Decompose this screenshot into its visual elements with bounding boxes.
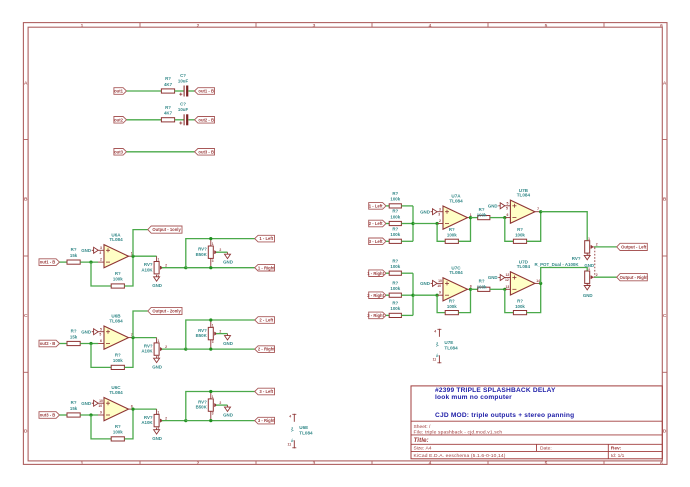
svg-text:3: 3 <box>212 259 214 263</box>
svg-text:R?: R? <box>115 424 121 429</box>
svg-text:R_POT_Dual - A100K: R_POT_Dual - A100K <box>535 262 580 267</box>
svg-text:#2399 TRIPLE SPLASHBACK DELAY: #2399 TRIPLE SPLASHBACK DELAY <box>435 387 556 394</box>
svg-text:14: 14 <box>536 279 540 283</box>
svg-text:5: 5 <box>506 201 508 205</box>
svg-text:3 - Left: 3 - Left <box>369 239 383 244</box>
svg-text:out3: out3 <box>114 149 124 154</box>
svg-text:U6C: U6C <box>111 385 121 390</box>
svg-text:100k: 100k <box>477 284 487 289</box>
svg-text:GND: GND <box>152 283 162 288</box>
svg-text:C?: C? <box>180 73 186 78</box>
svg-text:C?: C? <box>180 102 186 107</box>
svg-text:GND: GND <box>152 365 162 370</box>
svg-text:2: 2 <box>165 345 167 349</box>
svg-text:File: triple spashback - cjd.m: File: triple spashback - cjd.mod.v1.sch <box>414 430 503 436</box>
svg-text:U6B: U6B <box>111 314 121 319</box>
svg-text:100k: 100k <box>390 264 400 269</box>
svg-text:V+: V+ <box>291 426 295 432</box>
svg-text:RV?: RV? <box>198 399 207 404</box>
svg-text:3: 3 <box>212 412 214 416</box>
svg-text:100k: 100k <box>390 306 400 311</box>
svg-text:3 - Right: 3 - Right <box>258 418 275 423</box>
svg-text:U7E: U7E <box>444 340 453 345</box>
svg-text:5: 5 <box>545 460 548 466</box>
svg-text:Title:: Title: <box>414 437 429 444</box>
svg-text:out2: out2 <box>114 117 124 122</box>
svg-text:100k: 100k <box>113 430 123 435</box>
svg-text:1 - Left: 1 - Left <box>259 236 273 241</box>
svg-text:1: 1 <box>158 411 160 415</box>
svg-text:4: 4 <box>429 460 432 466</box>
svg-text:2 - Left: 2 - Left <box>369 221 383 226</box>
svg-text:R?: R? <box>449 298 455 303</box>
svg-text:GND: GND <box>223 412 233 417</box>
svg-text:R?: R? <box>479 207 485 212</box>
svg-text:out1: out1 <box>114 89 124 94</box>
svg-text:GND: GND <box>81 248 91 253</box>
svg-text:TL084: TL084 <box>449 198 463 203</box>
svg-text:3: 3 <box>438 212 440 216</box>
svg-text:3: 3 <box>100 246 102 250</box>
svg-text:100k: 100k <box>113 277 123 282</box>
svg-text:1: 1 <box>212 324 214 328</box>
svg-text:C: C <box>24 313 28 319</box>
svg-text:100k: 100k <box>447 233 457 238</box>
svg-text:10: 10 <box>437 284 441 288</box>
svg-text:1: 1 <box>81 460 84 466</box>
svg-text:2: 2 <box>100 258 102 262</box>
svg-text:Id: 1/1: Id: 1/1 <box>611 453 625 459</box>
svg-text:10: 10 <box>438 279 442 283</box>
svg-text:C: C <box>663 313 667 319</box>
svg-text:4: 4 <box>289 414 291 418</box>
svg-text:U7A: U7A <box>451 194 461 199</box>
svg-text:B50K: B50K <box>196 405 208 410</box>
svg-text:KiCad E.D.A. eeschema (5.1.6-: KiCad E.D.A. eeschema (5.1.6-0-10,14) <box>414 453 506 459</box>
svg-text:GND: GND <box>420 209 430 214</box>
svg-text:1: 1 <box>212 242 214 246</box>
svg-text:Output - 2only: Output - 2only <box>152 309 181 314</box>
svg-text:GND: GND <box>223 259 233 264</box>
svg-text:2 - Right: 2 - Right <box>367 293 384 298</box>
svg-text:V+: V+ <box>436 341 440 347</box>
svg-text:1: 1 <box>212 395 214 399</box>
svg-text:GND: GND <box>152 436 162 441</box>
svg-text:GND: GND <box>583 293 593 298</box>
svg-text:Output - Right: Output - Right <box>620 275 649 280</box>
svg-text:U7C: U7C <box>451 265 461 270</box>
svg-text:6: 6 <box>660 23 663 29</box>
svg-text:Output - Left: Output - Left <box>621 245 647 250</box>
svg-text:U6A: U6A <box>111 232 121 237</box>
svg-text:1: 1 <box>81 23 84 29</box>
svg-text:100k: 100k <box>477 213 487 218</box>
svg-text:out1 - B: out1 - B <box>198 89 214 94</box>
svg-text:10uF: 10uF <box>178 78 189 83</box>
svg-text:100k: 100k <box>390 214 400 219</box>
svg-text:100k: 100k <box>515 233 525 238</box>
svg-text:RV?: RV? <box>198 328 207 333</box>
svg-text:6: 6 <box>660 460 663 466</box>
svg-text:U7B: U7B <box>519 188 529 193</box>
svg-text:4: 4 <box>434 329 436 333</box>
svg-text:TL084: TL084 <box>517 264 531 269</box>
svg-text:6: 6 <box>506 213 508 217</box>
svg-text:R?: R? <box>517 227 523 232</box>
svg-text:R?: R? <box>392 191 398 196</box>
svg-text:Output - 1only: Output - 1only <box>152 227 181 232</box>
svg-text:1: 1 <box>158 339 160 343</box>
svg-text:RV?: RV? <box>144 262 153 267</box>
svg-text:B50K: B50K <box>196 333 208 338</box>
svg-text:U6E: U6E <box>299 425 308 430</box>
svg-text:3 - Right: 3 - Right <box>367 313 384 318</box>
svg-text:out3 - B: out3 - B <box>198 149 214 154</box>
svg-text:GND: GND <box>420 281 430 286</box>
svg-text:RV?: RV? <box>144 343 153 348</box>
svg-text:R?: R? <box>115 271 121 276</box>
svg-text:2: 2 <box>596 243 598 247</box>
svg-text:TL084: TL084 <box>109 237 123 242</box>
svg-text:R?: R? <box>392 258 398 263</box>
svg-text:1: 1 <box>588 237 590 241</box>
svg-text:GND: GND <box>81 401 91 406</box>
svg-text:GND: GND <box>81 329 91 334</box>
svg-text:10: 10 <box>98 404 102 408</box>
svg-text:13: 13 <box>506 285 510 289</box>
svg-text:U7D: U7D <box>519 260 529 265</box>
svg-text:2: 2 <box>165 416 167 420</box>
svg-text:RV?: RV? <box>198 246 207 251</box>
svg-text:look mum no computer: look mum no computer <box>435 394 512 401</box>
svg-text:B: B <box>663 197 667 203</box>
svg-text:TL084: TL084 <box>449 270 463 275</box>
svg-text:15k: 15k <box>70 334 78 339</box>
svg-text:R?: R? <box>165 76 171 81</box>
svg-text:1 - Right: 1 - Right <box>258 265 275 270</box>
svg-text:R?: R? <box>115 353 121 358</box>
svg-text:R?: R? <box>449 227 455 232</box>
svg-text:10uF: 10uF <box>178 107 189 112</box>
svg-text:4K7: 4K7 <box>164 82 173 87</box>
svg-text:out3 - B: out3 - B <box>40 413 56 418</box>
svg-text:R?: R? <box>71 247 77 252</box>
svg-text:A: A <box>24 81 28 87</box>
svg-text:A10K: A10K <box>141 267 153 272</box>
svg-text:3: 3 <box>313 23 316 29</box>
svg-text:3: 3 <box>212 340 214 344</box>
svg-text:3: 3 <box>99 251 101 255</box>
svg-text:R?: R? <box>165 105 171 110</box>
svg-text:9: 9 <box>100 411 102 415</box>
svg-text:2: 2 <box>219 329 221 333</box>
svg-text:2: 2 <box>219 248 221 252</box>
svg-text:R?: R? <box>517 298 523 303</box>
svg-text:4K7: 4K7 <box>164 111 173 116</box>
svg-text:100k: 100k <box>447 304 457 309</box>
svg-text:Rev:: Rev: <box>611 446 622 452</box>
svg-text:TL084: TL084 <box>109 390 123 395</box>
svg-text:D: D <box>663 429 667 435</box>
svg-text:11: 11 <box>433 357 437 361</box>
svg-text:GND: GND <box>223 341 233 346</box>
svg-text:2: 2 <box>596 273 598 277</box>
svg-text:A: A <box>663 81 667 87</box>
svg-text:1: 1 <box>158 258 160 262</box>
svg-text:2: 2 <box>197 460 200 466</box>
svg-text:R?: R? <box>392 280 398 285</box>
svg-text:RV?: RV? <box>572 256 581 261</box>
svg-text:B50K: B50K <box>196 252 208 257</box>
svg-text:1 - Left: 1 - Left <box>369 204 383 209</box>
svg-text:11: 11 <box>288 442 292 446</box>
svg-text:TL084: TL084 <box>299 430 313 435</box>
svg-text:R?: R? <box>392 301 398 306</box>
svg-text:TL084: TL084 <box>109 318 123 323</box>
svg-text:A10K: A10K <box>141 349 153 354</box>
svg-text:2 - Left: 2 - Left <box>259 318 273 323</box>
svg-text:out1 - B: out1 - B <box>40 260 56 265</box>
svg-text:5: 5 <box>506 207 508 211</box>
svg-text:R?: R? <box>392 227 398 232</box>
svg-text:100k: 100k <box>113 358 123 363</box>
svg-text:out2 - B: out2 - B <box>198 117 214 122</box>
svg-text:1: 1 <box>588 267 590 271</box>
svg-text:R?: R? <box>392 209 398 214</box>
svg-text:5: 5 <box>100 327 102 331</box>
svg-text:R?: R? <box>479 279 485 284</box>
svg-text:TL084: TL084 <box>444 345 458 350</box>
svg-text:2: 2 <box>165 264 167 268</box>
svg-text:1 - Right: 1 - Right <box>367 271 384 276</box>
svg-text:5: 5 <box>545 23 548 29</box>
svg-text:R?: R? <box>71 328 77 333</box>
svg-text:TL084: TL084 <box>517 193 531 198</box>
svg-text:RV?: RV? <box>144 415 153 420</box>
svg-text:2: 2 <box>439 219 441 223</box>
svg-text:100k: 100k <box>390 197 400 202</box>
svg-text:GND: GND <box>488 204 498 209</box>
svg-text:D: D <box>24 429 28 435</box>
svg-text:2: 2 <box>197 23 200 29</box>
svg-text:2: 2 <box>219 401 221 405</box>
svg-text:A10K: A10K <box>141 420 153 425</box>
svg-text:CJD MOD: triple outputs + ster: CJD MOD: triple outputs + stereo panning <box>435 412 574 419</box>
svg-text:7: 7 <box>537 207 539 211</box>
svg-text:GND: GND <box>488 275 498 280</box>
svg-text:100k: 100k <box>515 304 525 309</box>
svg-text:B: B <box>24 197 28 203</box>
svg-text:3: 3 <box>313 460 316 466</box>
svg-text:Size: A4: Size: A4 <box>414 446 432 452</box>
svg-text:12: 12 <box>505 278 509 282</box>
svg-text:100k: 100k <box>390 286 400 291</box>
svg-text:4: 4 <box>429 23 432 29</box>
svg-text:3: 3 <box>439 207 441 211</box>
svg-text:3 - Left: 3 - Left <box>259 389 273 394</box>
svg-text:R?: R? <box>71 400 77 405</box>
svg-text:5: 5 <box>99 332 101 336</box>
svg-text:9: 9 <box>439 291 441 295</box>
svg-text:Sheet: /: Sheet: / <box>414 424 431 430</box>
svg-text:out2 - B: out2 - B <box>40 341 56 346</box>
svg-text:10: 10 <box>99 399 103 403</box>
svg-text:6: 6 <box>100 339 102 343</box>
svg-text:15k: 15k <box>70 406 78 411</box>
svg-text:15k: 15k <box>70 253 78 258</box>
svg-text:2 - Right: 2 - Right <box>258 347 275 352</box>
svg-text:12: 12 <box>506 273 510 277</box>
svg-text:100k: 100k <box>390 232 400 237</box>
svg-text:Date:: Date: <box>540 446 552 452</box>
